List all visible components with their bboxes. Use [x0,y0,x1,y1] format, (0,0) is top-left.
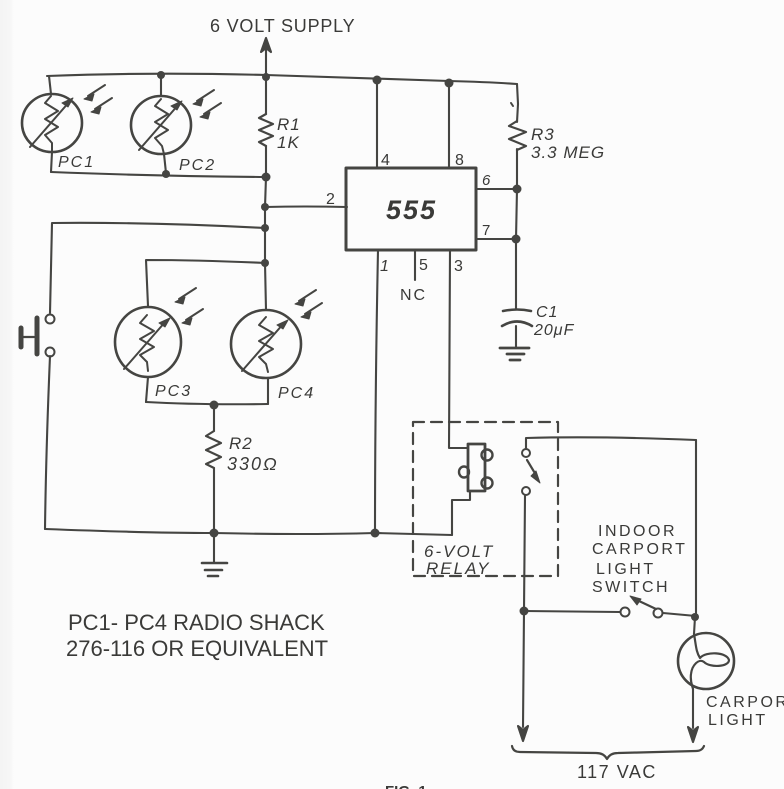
wire: PC1 bottom stub [51,152,52,172]
wire: ground rail [45,529,452,535]
junction dot R1 bottom [262,173,271,182]
junction dot pin8 [445,79,454,88]
relay K1 dashed box [413,422,558,576]
svg-text:4: 4 [381,152,390,169]
light arrows PC3 [175,288,203,325]
resistor R2 [206,405,221,533]
junction dot switch tap [261,224,269,232]
svg-text:6: 6 [482,172,491,189]
junction dot pin6 [513,185,522,194]
indoor switch S2 [621,596,663,618]
wire: top right drop to R3 [517,84,518,122]
wire: lamp top lead [694,617,695,634]
wire: pin 7 [476,238,516,240]
junction dot R2 top [210,401,219,410]
op-amp/timer U1 555 [346,168,476,250]
light arrows PC1 [84,85,112,114]
brace 117 VAC [512,746,704,759]
svg-text:276-116 OR EQUIVALENT: 276-116 OR EQUIVALENT [66,636,328,661]
svg-text:8: 8 [455,152,464,169]
wire: PC3 top feed [146,260,265,306]
wire: pin 4 [376,80,378,168]
svg-text:R3: R3 [531,125,555,144]
junction dot ground rail R2 [210,529,219,538]
svg-text:CARPORT: CARPORT [706,694,784,711]
wire: PC4 bottom stub [267,378,269,404]
wire: right vertical from relay wire to lamp [695,440,697,616]
left scan margin [0,0,14,789]
wire: pin 1 to ground rail [375,250,378,533]
capacitor C1 [502,310,532,349]
svg-text:RELAY: RELAY [426,559,491,578]
wire: AC left drop with arrow [523,611,524,727]
svg-text:PC2: PC2 [179,157,216,174]
junction dot ground rail pin1 [371,529,380,538]
wire: relay NO contact down [524,496,525,611]
svg-text:2: 2 [326,191,335,208]
junction dot PC2 top [157,71,165,79]
junction dot PC2 bottom [162,170,170,178]
svg-text:3.3 MEG: 3.3 MEG [531,143,605,162]
ground symbol main [202,533,227,576]
wire: lamp bottom lead with arrow [692,689,694,728]
wire: coil bottom to ground rail [452,491,470,535]
resistor R3 [509,121,526,189]
junction dot PC3 tap [261,259,269,267]
junction dot pin2 tap [261,203,269,211]
junction dot lamp node [691,613,699,621]
relay contacts [522,449,540,495]
junction dot pin4 [373,76,382,85]
svg-text:117 VAC: 117 VAC [577,762,657,782]
svg-text:1K: 1K [277,133,300,152]
svg-text:3: 3 [454,258,463,275]
pushbutton switch S1 [21,315,55,357]
light arrows PC4 [295,290,322,319]
svg-text:PC1: PC1 [58,154,95,171]
wire: pin 6 [476,188,517,190]
svg-text:C1: C1 [536,304,558,321]
wire: PC1 top stub [49,76,51,94]
svg-text:FIG. 1: FIG. 1 [385,783,427,789]
svg-text:LIGHT: LIGHT [708,712,768,729]
resistor R1 [259,77,273,177]
wire: +6V top power rail [47,74,517,84]
wire: switch row left [524,611,620,612]
photocell PC2 [131,96,191,154]
wire: pushbutton to ground rail [45,356,50,529]
wire: pin 8 [448,83,450,168]
wire: pin7 node down to C1 [516,189,517,309]
wire: pin 5 NC stub [414,250,416,280]
photocell PC4 [231,310,301,378]
svg-text:5: 5 [419,257,428,274]
wire: PC3 bottom stub [146,377,148,402]
lamp carport light [678,633,734,689]
light arrows PC2 [193,90,221,119]
photocell PC1 [22,94,82,152]
svg-text:1: 1 [380,258,389,275]
svg-text:CARPORT: CARPORT [592,541,687,558]
svg-text:R2: R2 [229,434,253,453]
svg-text:330Ω: 330Ω [227,454,279,474]
wire: PC3/PC4 bottom rail [146,402,268,404]
wire: to pushbutton [50,223,265,313]
wire: pin 3 to relay coil [449,250,468,448]
wire: to 555 pin 2 [265,205,347,208]
svg-text:SWITCH: SWITCH [592,579,670,596]
wire: PC2 top stub [160,75,162,96]
wire: PC1/PC2 bottom rail [51,172,266,177]
svg-text:555: 555 [386,195,437,225]
svg-text:20μF: 20μF [533,322,575,339]
svg-text:LIGHT: LIGHT [596,561,656,578]
supply arrow up [265,46,267,75]
wire: center vertical node (R1 bottom to PC4 top) [265,177,266,310]
wire: relay common to AC hot [526,437,696,449]
photocell PC3 [115,307,181,377]
relay coil [459,444,493,491]
svg-text:6 VOLT SUPPLY: 6 VOLT SUPPLY [210,16,355,36]
junction dot AC left [520,607,529,616]
svg-text:PC1- PC4 RADIO SHACK: PC1- PC4 RADIO SHACK [68,610,325,635]
svg-text:7: 7 [482,222,490,239]
svg-text:NC: NC [400,287,427,304]
wire: PC2 bottom stub [164,154,166,173]
svg-text:PC3: PC3 [155,383,192,400]
junction dot pin7 [512,235,521,244]
wire: switch to lamp node [663,613,696,616]
stray tick mark [511,103,513,106]
svg-text:R1: R1 [277,115,301,134]
svg-text:INDOOR: INDOOR [598,523,677,540]
svg-text:PC4: PC4 [278,385,315,402]
junction dot R1 top [262,73,270,81]
ground symbol C1 [500,348,529,360]
